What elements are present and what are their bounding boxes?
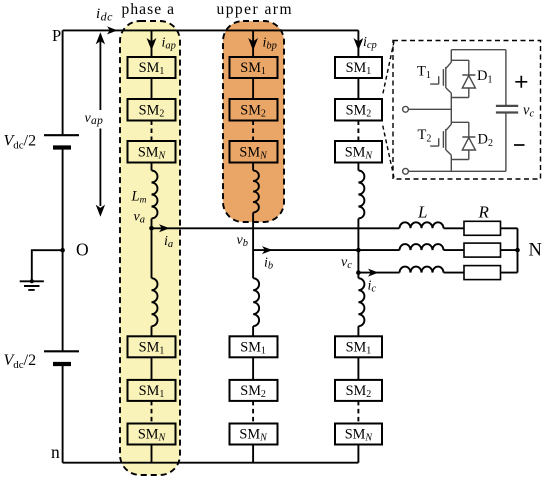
svg-text:upper arm: upper arm [217,1,292,18]
svg-text:P: P [52,26,61,45]
svg-text:L: L [417,203,427,222]
svg-text:O: O [76,240,89,260]
svg-text:N: N [529,241,542,261]
svg-text:idc: idc [96,6,113,23]
svg-text:R: R [478,203,490,222]
svg-text:n: n [51,442,60,462]
svg-text:phase a: phase a [122,1,175,18]
